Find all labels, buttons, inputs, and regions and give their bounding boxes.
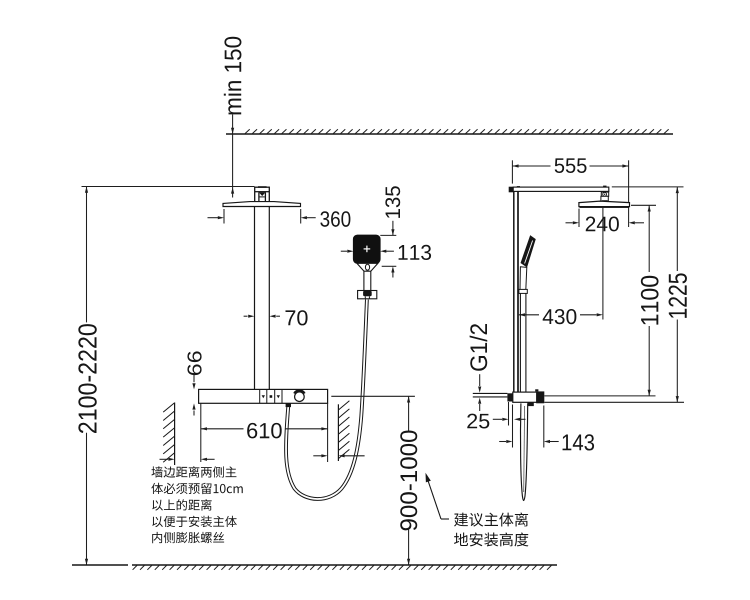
main body bar front	[199, 389, 328, 403]
ceiling hatch	[245, 129, 669, 133]
dimension 2100-2220 line	[85, 187, 88, 566]
dimension 1225 lines	[612, 187, 684, 402]
dimension 113 lines	[341, 250, 394, 253]
handheld shower handle front	[357, 263, 378, 290]
ceiling mount bracket	[255, 186, 270, 202]
dimension G1/2 lines	[478, 374, 481, 411]
left wall edge	[174, 403, 176, 466]
dimension 2100-2220 text	[78, 324, 96, 433]
dimension 135 text	[385, 186, 400, 218]
hose side	[520, 403, 527, 500]
hand shower reference lines	[380, 235, 396, 266]
left annotation text	[151, 466, 242, 543]
right wall hatch	[338, 401, 349, 459]
dimension 113 text	[399, 245, 431, 260]
overhead head side	[579, 201, 630, 208]
dimension 25 text	[467, 414, 489, 429]
dimension 25 lines	[493, 402, 526, 426]
pipe side	[514, 191, 518, 392]
right clearance arrows	[313, 454, 364, 457]
dimension 610 lines	[201, 427, 328, 430]
handheld holder bracket front	[358, 291, 377, 299]
dimension 900-1000 line	[407, 396, 410, 565]
head centerline	[602, 207, 604, 320]
dimension 430 lines	[519, 313, 603, 316]
dimension 135 lines	[391, 221, 394, 278]
dimension 430 text	[543, 309, 577, 324]
floor hatch	[133, 565, 552, 569]
hand wand side	[519, 236, 535, 392]
dimension 360 lines	[208, 209, 316, 224]
left wall hatch	[163, 403, 174, 463]
right annotation leader arrow	[426, 473, 450, 519]
dimension G1/2 text	[470, 324, 488, 371]
shower column front	[255, 207, 270, 390]
610 extension lines	[201, 403, 328, 462]
top arm side	[509, 186, 609, 193]
right figure bottom reference lines	[544, 396, 684, 402]
dimension min 150 line	[231, 115, 234, 198]
dimension 555 lines	[512, 160, 628, 227]
dimension 1100 lines	[631, 205, 656, 396]
right annotation text	[454, 513, 528, 547]
dimension 70 lines	[244, 315, 280, 318]
dimension 143 text	[563, 434, 595, 450]
dimension 240 lines	[566, 209, 645, 227]
dimension 66 lines	[192, 374, 195, 416]
handheld shower head front	[353, 235, 380, 263]
dimension min 150 text	[224, 37, 242, 115]
dimension 240 text	[586, 217, 619, 232]
dimension 610 text	[247, 423, 282, 439]
hose outlet nub front	[286, 403, 291, 407]
inlet stub lines	[473, 393, 508, 397]
dimension 143 lines	[499, 405, 559, 448]
overhead head joint side	[601, 192, 609, 202]
body knob	[294, 390, 304, 401]
floor line	[72, 564, 557, 566]
dimension 1100 text	[641, 276, 659, 325]
dimension 900-1000 text	[400, 430, 417, 530]
ceiling line	[226, 133, 673, 135]
shower hose front	[286, 300, 367, 500]
900-1000 extension line	[331, 395, 415, 397]
right wall edge	[337, 404, 339, 461]
hose nub side	[527, 402, 533, 406]
dimension 70 text	[286, 310, 308, 325]
dimension 66 text	[187, 351, 201, 375]
top reference line	[82, 186, 255, 188]
overhead shower plate front	[223, 202, 301, 207]
body side	[507, 389, 544, 403]
left clearance arrows	[160, 458, 215, 461]
dimension 1225 text	[669, 273, 687, 318]
dimension 555 text	[555, 158, 587, 173]
dimension 360 text	[320, 211, 350, 227]
body buttons	[260, 389, 282, 403]
